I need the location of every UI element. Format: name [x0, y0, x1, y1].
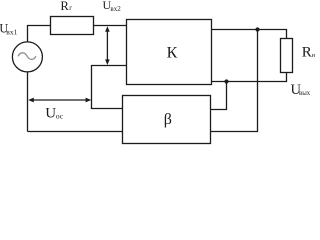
amplifier K box: [127, 20, 212, 85]
svg-text:г: г: [69, 4, 72, 12]
wire K output bottom to Rn bottom: [212, 73, 287, 82]
wire K output top to Rn top: [212, 30, 287, 39]
wire source-bottom down: [27, 72, 29, 132]
svg-text:R: R: [60, 0, 69, 13]
resistor Rg box: [51, 17, 94, 35]
svg-text:н: н: [312, 52, 316, 59]
svg-text:вх1: вх1: [6, 27, 17, 36]
wire K input bottom from feedback node: [92, 66, 127, 109]
svg-text:β: β: [164, 111, 172, 128]
wire junction to beta right upper: [211, 82, 227, 110]
svg-text:ос: ос: [56, 111, 64, 120]
svg-text:вх2: вх2: [110, 5, 121, 13]
bottom rail wire: [28, 131, 123, 133]
junction dot at bottom output node: [224, 79, 228, 83]
AC source circle: [12, 42, 42, 72]
feedback beta box: [123, 96, 211, 144]
svg-text:U: U: [45, 106, 56, 122]
wire top output node down to beta right lower: [211, 30, 258, 132]
svg-text:R: R: [302, 45, 312, 61]
svg-text:вых: вых: [299, 90, 311, 97]
load resistor Rn box: [281, 39, 293, 73]
wire source-top to Rg: [28, 26, 51, 43]
U vx2 double arrow: [105, 26, 110, 65]
sine wave: [18, 53, 36, 60]
svg-text:К: К: [167, 44, 178, 61]
junction dot at top output node: [255, 27, 259, 31]
wire Rg to K input top: [94, 25, 127, 27]
U oc double arrow: [28, 98, 91, 103]
